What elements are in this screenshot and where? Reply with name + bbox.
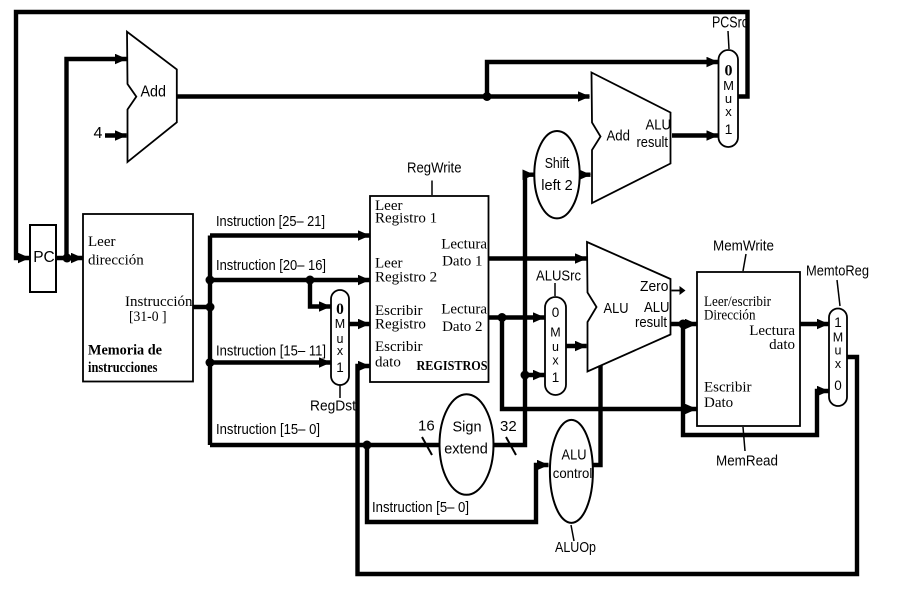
- junction dot on Add output: [483, 92, 492, 101]
- svg-text:x: x: [835, 357, 842, 371]
- svg-text:Instrucción: Instrucción: [125, 294, 193, 310]
- wire: Instruction 20-16 to read register 2: [210, 278, 370, 282]
- svg-text:0: 0: [834, 378, 842, 393]
- wire: PCSrc mux output loop back over top to PC input: [16, 12, 748, 258]
- svg-text:Memoria de: Memoria de: [88, 343, 162, 359]
- svg-text:Instruction [25– 21]: Instruction [25– 21]: [216, 214, 325, 230]
- svg-text:Escribir: Escribir: [375, 339, 422, 355]
- mux MemtoReg: [829, 309, 847, 407]
- MemWrite control line: [743, 254, 746, 271]
- wire: read data 2 to ALUSrc mux input 0: [489, 315, 545, 319]
- wire: read data 2 down to data memory write data: [502, 318, 697, 410]
- svg-text:M: M: [550, 326, 560, 340]
- svg-text:Instruction [5– 0]: Instruction [5– 0]: [372, 500, 469, 516]
- svg-text:1: 1: [552, 370, 560, 385]
- adder branch (Add ALU result): [592, 73, 671, 204]
- svg-text:Escribir: Escribir: [704, 380, 751, 396]
- wire: instruction 20-16 branch down to RegDst mux input 0: [310, 280, 331, 307]
- svg-text:[31-0 ]: [31-0 ]: [129, 309, 167, 325]
- svg-text:16: 16: [418, 418, 435, 435]
- svg-text:Registro 1: Registro 1: [375, 211, 437, 227]
- wire: Instruction 15-11 to RegDst mux input 1: [210, 360, 331, 364]
- wire: instruction spine vertical: [208, 236, 212, 446]
- svg-text:ALU: ALU: [604, 300, 629, 317]
- svg-text:ALU: ALU: [644, 300, 670, 316]
- svg-text:PC: PC: [33, 249, 55, 266]
- svg-text:1: 1: [336, 360, 344, 375]
- junction dot instruction 15-0 branch: [363, 441, 372, 450]
- wire: ALU result bypass down to MemtoReg mux input 0: [683, 324, 829, 435]
- mux RegDst: [331, 290, 349, 385]
- wire: PC output riser up to Add input: [67, 59, 127, 258]
- junction dot spine at instruction 15-11: [206, 358, 215, 367]
- junction dot sign extend riser: [521, 371, 530, 380]
- svg-text:Registro: Registro: [375, 317, 426, 333]
- svg-text:RegDst: RegDst: [310, 398, 357, 415]
- ALU main: [587, 242, 671, 372]
- svg-text:1: 1: [834, 315, 842, 330]
- wire: sign extend branch to ALUSrc mux input 1: [525, 373, 545, 377]
- svg-text:0: 0: [336, 301, 344, 318]
- svg-text:RegWrite: RegWrite: [407, 160, 462, 177]
- svg-text:Dato 1: Dato 1: [442, 254, 482, 270]
- svg-text:Instruction [15– 11]: Instruction [15– 11]: [216, 344, 326, 360]
- junction dot instruction 20-16 branch: [306, 276, 315, 285]
- svg-text:result: result: [635, 315, 667, 331]
- wire: Zero output arrow: [672, 290, 681, 292]
- PCSrc control line: [728, 31, 729, 49]
- wire: Add output branch up to PCSrc mux input 0: [487, 62, 718, 97]
- svg-text:Sign: Sign: [452, 420, 481, 436]
- svg-text:Add: Add: [141, 84, 167, 101]
- svg-text:Instruction [15– 0]: Instruction [15– 0]: [216, 422, 320, 438]
- ALUSrc control line: [554, 283, 556, 296]
- junction dot spine at instruction 20-16: [206, 276, 215, 285]
- svg-text:Instruction [20– 16]: Instruction [20– 16]: [216, 258, 326, 274]
- svg-text:4: 4: [94, 125, 103, 142]
- mux ALUSrc: [545, 297, 566, 395]
- PC register: [30, 225, 56, 292]
- mux PCSrc: [719, 50, 739, 147]
- wire: PC output to instruction memory: [56, 256, 83, 260]
- svg-text:ALUSrc: ALUSrc: [536, 268, 581, 285]
- svg-text:dirección: dirección: [88, 253, 144, 269]
- ALU control oval: [550, 420, 593, 523]
- wire: ALU control output up to ALU: [593, 366, 601, 466]
- svg-text:u: u: [835, 344, 842, 358]
- svg-text:u: u: [552, 340, 559, 354]
- wire: RegDst mux output to write register: [349, 322, 370, 326]
- svg-text:ALU: ALU: [646, 118, 672, 134]
- svg-text:Lectura: Lectura: [441, 237, 487, 253]
- sign extend oval: [440, 394, 494, 495]
- svg-text:Dirección: Dirección: [704, 308, 756, 324]
- svg-text:x: x: [337, 344, 344, 358]
- svg-text:Registro 2: Registro 2: [375, 270, 437, 286]
- svg-text:result: result: [637, 135, 669, 151]
- ALUOp control line: [571, 525, 574, 541]
- wire: sign extend output riser to shift left 2: [494, 175, 534, 445]
- shift left 2 oval: [534, 131, 579, 218]
- wire: branch adder output to PCSrc mux input 1: [672, 133, 718, 137]
- wire: Add output to branch adder input: [176, 94, 590, 98]
- svg-text:M: M: [833, 331, 843, 345]
- svg-text:0: 0: [552, 305, 560, 320]
- svg-text:instrucciones: instrucciones: [88, 360, 158, 376]
- wire: Instruction 25-21 to read register 1: [210, 233, 370, 237]
- junction dot spine at instruction output: [206, 303, 215, 312]
- wire: Instruction 5-0 loop to ALU control: [367, 445, 549, 522]
- junction dot on PC output: [63, 254, 72, 263]
- svg-text:M: M: [335, 317, 345, 331]
- bus width 32 slash: [506, 437, 516, 455]
- svg-text:Dato: Dato: [704, 395, 733, 411]
- junction dot ALU result: [679, 320, 688, 329]
- svg-text:dato: dato: [375, 355, 401, 371]
- wire: MemtoReg mux output writeback to registers write data: [358, 357, 858, 574]
- svg-text:Add: Add: [607, 129, 631, 145]
- svg-text:left 2: left 2: [541, 178, 572, 194]
- instruction memory box: [83, 214, 193, 382]
- svg-text:0: 0: [725, 63, 733, 80]
- svg-text:x: x: [725, 104, 732, 119]
- wire: constant 4 into Add: [105, 133, 127, 137]
- svg-text:MemRead: MemRead: [716, 453, 778, 470]
- RegDst label line: [339, 385, 341, 398]
- MemtoReg control line: [837, 280, 840, 306]
- svg-text:MemWrite: MemWrite: [713, 238, 774, 255]
- svg-text:ALUOp: ALUOp: [555, 539, 596, 556]
- wire: ALUSrc mux output to ALU: [566, 344, 587, 348]
- svg-text:x: x: [552, 354, 559, 368]
- svg-text:Zero: Zero: [640, 279, 669, 295]
- wire: instruction memory output to spine: [193, 305, 212, 309]
- wire: read data 1 to ALU: [489, 256, 587, 260]
- svg-text:extend: extend: [444, 442, 488, 458]
- adder Add (PC+4): [127, 32, 177, 162]
- RegWrite control line: [431, 181, 433, 196]
- data memory box: [697, 272, 800, 426]
- bus width 16 slash: [422, 437, 432, 455]
- junction dot read data 2: [498, 313, 507, 322]
- wire: Instruction 15-0 to sign extend: [210, 443, 440, 447]
- svg-text:1: 1: [725, 121, 733, 137]
- svg-text:PCSrc: PCSrc: [712, 15, 748, 32]
- svg-text:MemtoReg: MemtoReg: [806, 263, 869, 280]
- svg-text:Leer: Leer: [88, 234, 115, 250]
- svg-text:REGISTROS: REGISTROS: [417, 359, 488, 374]
- wire: memory read data to MemtoReg mux input 1: [800, 322, 829, 326]
- svg-text:32: 32: [500, 418, 517, 435]
- svg-text:ALU: ALU: [562, 448, 587, 464]
- svg-text:control: control: [553, 465, 593, 481]
- MemRead control line: [743, 427, 745, 451]
- registers box: [370, 196, 489, 382]
- svg-text:Dato 2: Dato 2: [442, 319, 482, 335]
- svg-text:Shift: Shift: [545, 156, 570, 172]
- svg-text:dato: dato: [769, 337, 795, 353]
- wire: shift left 2 output to branch adder: [581, 172, 591, 176]
- wire: ALU result to data memory address: [671, 322, 697, 326]
- svg-text:Lectura: Lectura: [441, 302, 487, 318]
